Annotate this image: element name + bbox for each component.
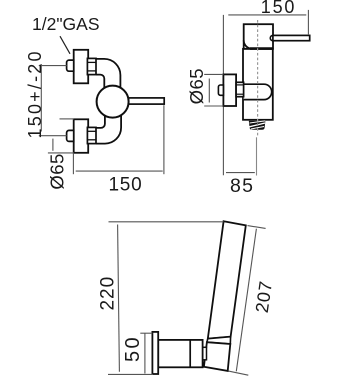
svg-text:150: 150 xyxy=(261,0,296,17)
svg-text:Ø65: Ø65 xyxy=(47,153,68,189)
svg-text:Ø65: Ø65 xyxy=(186,68,207,104)
svg-text:1/2"GAS: 1/2"GAS xyxy=(32,14,100,34)
svg-text:150+/-20: 150+/-20 xyxy=(25,49,45,138)
svg-text:50: 50 xyxy=(122,335,144,362)
svg-text:220: 220 xyxy=(98,276,119,311)
svg-text:85: 85 xyxy=(230,175,255,197)
svg-text:150: 150 xyxy=(108,175,142,196)
